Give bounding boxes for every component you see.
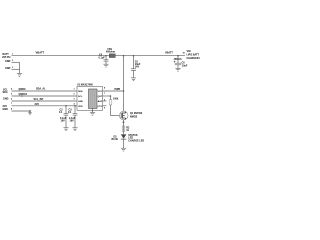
svg-text:QWIIC2: QWIIC2 bbox=[19, 93, 28, 96]
svg-text:JST-PH: JST-PH bbox=[2, 56, 11, 59]
svg-text:5: 5 bbox=[104, 107, 106, 109]
svg-text:QWIIC: QWIIC bbox=[19, 88, 26, 91]
svg-text:0.1: 0.1 bbox=[68, 111, 72, 114]
svg-text:10: 10 bbox=[183, 53, 186, 55]
svg-text:4: 4 bbox=[74, 102, 76, 105]
svg-text:8: 8 bbox=[104, 88, 106, 90]
svg-text:16V: 16V bbox=[61, 120, 66, 123]
svg-text:7: 7 bbox=[104, 93, 106, 95]
svg-text:3: 3 bbox=[12, 67, 14, 69]
svg-text:0.1: 0.1 bbox=[59, 111, 63, 114]
svg-text:CHARGER IN: CHARGER IN bbox=[187, 57, 201, 60]
svg-text:1: 1 bbox=[12, 53, 14, 55]
svg-text:4: 4 bbox=[11, 87, 13, 90]
svg-text:NMOS: NMOS bbox=[130, 115, 138, 118]
svg-text:10uF: 10uF bbox=[182, 65, 188, 68]
svg-text:GND: GND bbox=[3, 108, 9, 111]
svg-text:PWR: PWR bbox=[115, 88, 121, 91]
svg-text:VBATT: VBATT bbox=[36, 51, 45, 55]
svg-text:GND: GND bbox=[5, 67, 11, 70]
svg-text:600ohm: 600ohm bbox=[106, 51, 115, 54]
svg-text:SDA: SDA bbox=[78, 90, 83, 93]
svg-text:7: 7 bbox=[11, 103, 13, 105]
svg-text:8: 8 bbox=[11, 108, 13, 110]
svg-text:2: 2 bbox=[12, 60, 14, 62]
svg-text:GND: GND bbox=[3, 98, 9, 101]
svg-text:CTG: CTG bbox=[98, 106, 103, 108]
svg-text:1k: 1k bbox=[126, 129, 129, 132]
svg-text:2: 2 bbox=[74, 94, 76, 96]
svg-text:SDA_AL: SDA_AL bbox=[36, 88, 46, 91]
svg-text:SDA: SDA bbox=[3, 91, 8, 94]
svg-text:GND: GND bbox=[78, 101, 83, 103]
svg-text:6: 6 bbox=[11, 98, 13, 100]
svg-text:U1 MAX17048: U1 MAX17048 bbox=[77, 84, 93, 87]
svg-text:ALR: ALR bbox=[98, 100, 103, 103]
svg-text:3V3: 3V3 bbox=[35, 103, 40, 106]
svg-text:QST: QST bbox=[98, 96, 103, 98]
svg-text:CHARGE LED: CHARGE LED bbox=[128, 139, 144, 142]
svg-text:0.1uF: 0.1uF bbox=[99, 57, 106, 60]
svg-text:5: 5 bbox=[11, 93, 13, 95]
svg-text:16V: 16V bbox=[135, 66, 140, 69]
svg-text:GND: GND bbox=[5, 60, 11, 63]
svg-text:VCC: VCC bbox=[98, 91, 103, 93]
svg-text:16V: 16V bbox=[70, 120, 75, 123]
svg-text:1: 1 bbox=[74, 89, 76, 91]
svg-text:BLUE: BLUE bbox=[112, 138, 119, 141]
svg-text:VBATT: VBATT bbox=[165, 51, 173, 54]
svg-text:SCL: SCL bbox=[78, 96, 83, 98]
svg-text:VDD: VDD bbox=[78, 106, 83, 108]
svg-text:100k: 100k bbox=[113, 98, 119, 101]
svg-text:3: 3 bbox=[74, 99, 76, 101]
svg-text:SCL_INT: SCL_INT bbox=[34, 98, 45, 101]
